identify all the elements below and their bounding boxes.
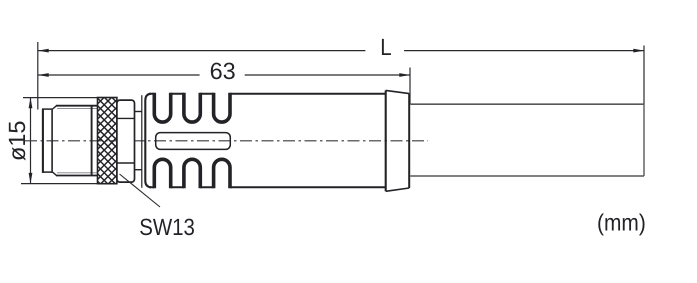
svg-text:63: 63 xyxy=(210,58,236,84)
svg-text:ø15: ø15 xyxy=(4,121,30,162)
svg-text:SW13: SW13 xyxy=(139,214,195,240)
svg-text:L: L xyxy=(380,34,391,60)
svg-text:(mm): (mm) xyxy=(597,209,646,235)
